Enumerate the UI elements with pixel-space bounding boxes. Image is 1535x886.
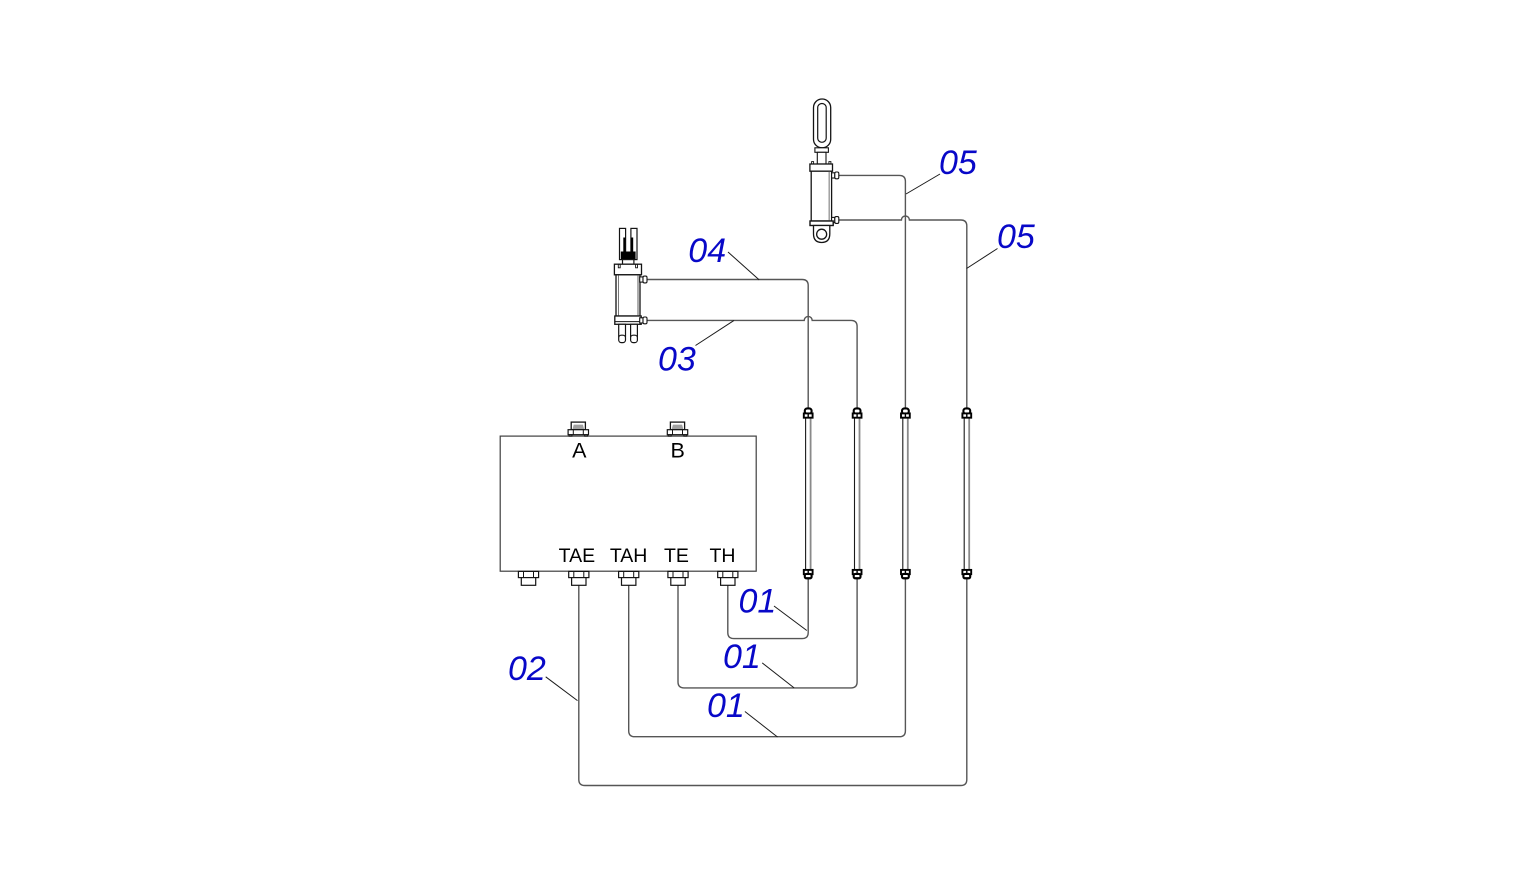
svg-text:05: 05 — [997, 218, 1035, 256]
svg-text:TH: TH — [710, 545, 736, 567]
svg-text:04: 04 — [688, 232, 726, 270]
svg-text:B: B — [671, 438, 685, 462]
svg-text:02: 02 — [508, 650, 546, 688]
svg-text:01: 01 — [707, 687, 745, 725]
svg-text:TAH: TAH — [610, 545, 648, 567]
svg-text:TE: TE — [664, 545, 689, 567]
svg-text:05: 05 — [939, 144, 977, 182]
svg-text:01: 01 — [723, 638, 761, 676]
svg-text:03: 03 — [658, 341, 696, 379]
svg-text:01: 01 — [739, 582, 777, 620]
svg-text:TAE: TAE — [559, 545, 595, 567]
svg-text:A: A — [572, 438, 587, 462]
